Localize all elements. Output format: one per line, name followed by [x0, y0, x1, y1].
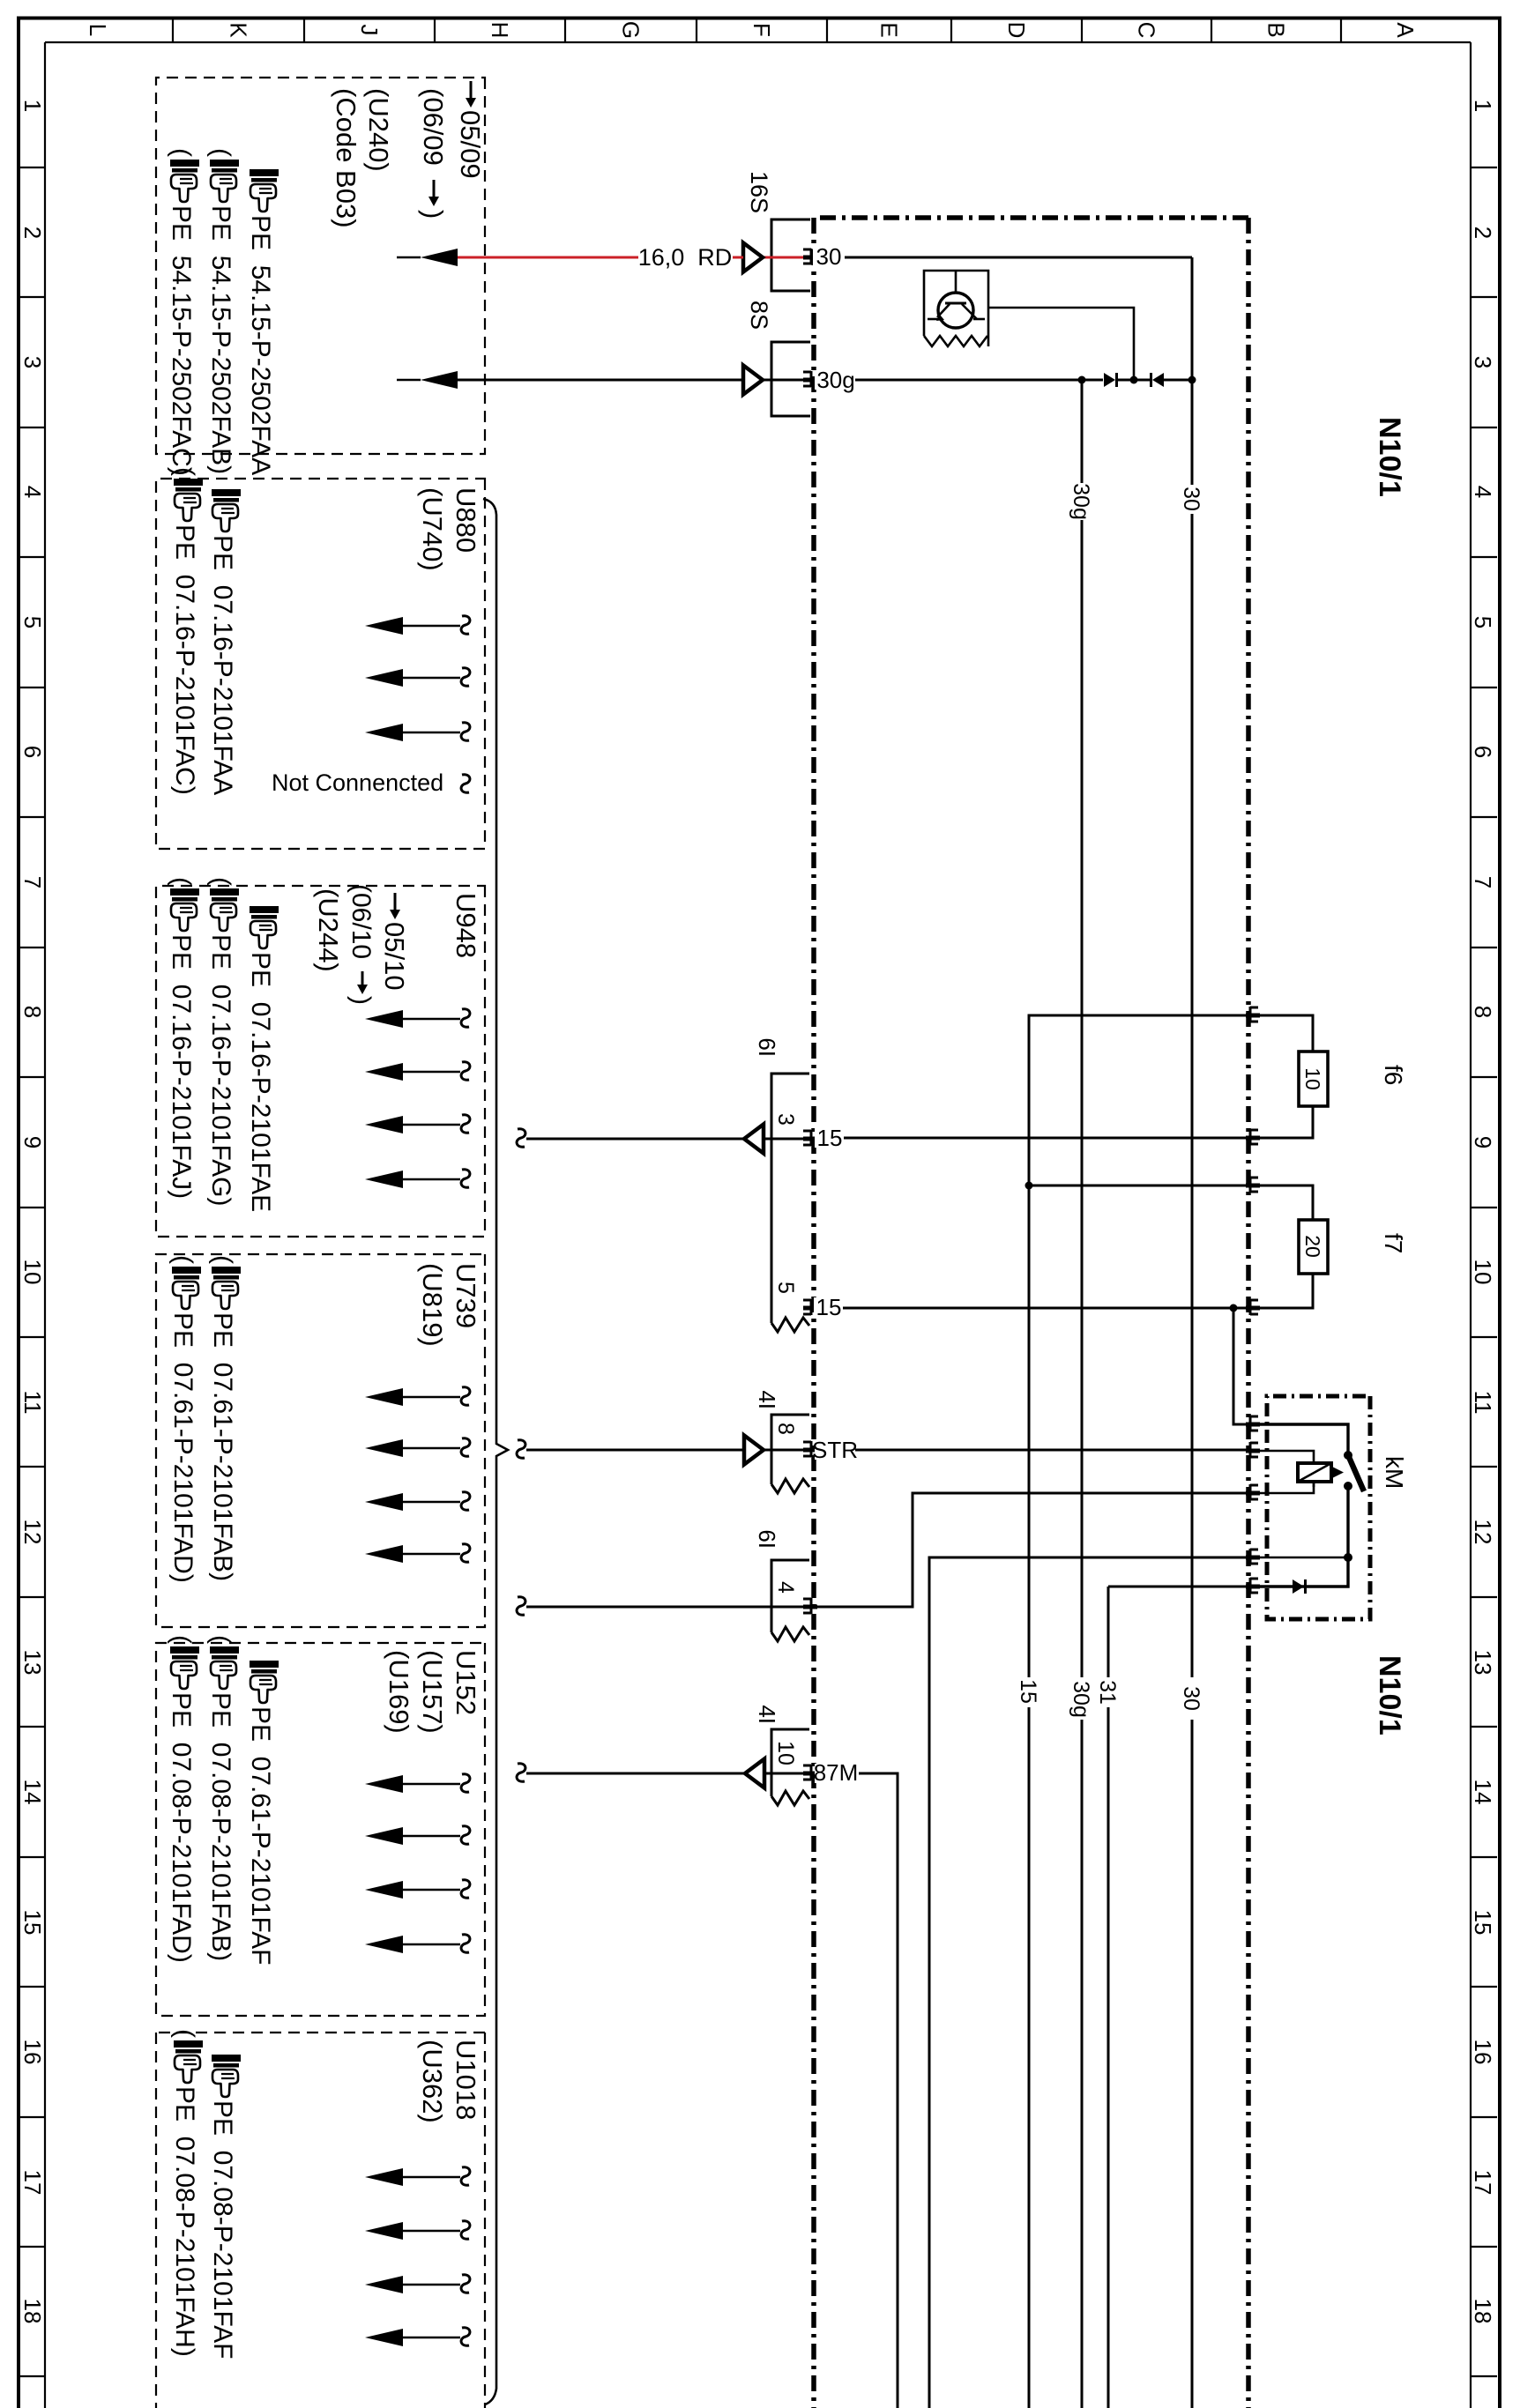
svg-text:(U169): (U169) [384, 1650, 414, 1734]
relay switch arm [1348, 1455, 1364, 1491]
svg-text:12: 12 [19, 1520, 46, 1545]
svg-text:5: 5 [19, 616, 46, 628]
relay switch feed wire [1248, 1424, 1348, 1452]
svg-text:(: ( [206, 877, 235, 886]
svg-text:8: 8 [773, 1423, 798, 1435]
squiggle 87M [517, 1764, 525, 1782]
svg-text:13: 13 [1470, 1650, 1496, 1676]
svg-text:U1018: U1018 [451, 2040, 481, 2120]
pin f7 in [1246, 1184, 1260, 1188]
svg-text:(U240): (U240) [363, 88, 394, 172]
box U152 stub 2 [461, 1826, 470, 1845]
relay output to pin 87M wire [1248, 1557, 1348, 1558]
svg-text:1: 1 [1470, 100, 1496, 112]
pin f6 in [1246, 1014, 1260, 1018]
box U948 ref FAE [250, 906, 279, 948]
fuse f7 20A [1248, 1185, 1313, 1220]
svg-text:9: 9 [19, 1136, 46, 1148]
svg-text:8: 8 [1470, 1006, 1496, 1018]
relay kM box [1267, 1396, 1370, 1619]
triangle STR [744, 1436, 764, 1465]
svg-text:3: 3 [19, 356, 46, 368]
svg-text:4: 4 [19, 486, 46, 498]
box U739 stub 3 [461, 1492, 470, 1511]
pin label 15a [815, 1128, 844, 1148]
border frame [1498, 17, 1501, 2408]
svg-text:7: 7 [1470, 876, 1496, 888]
svg-text:K: K [226, 22, 252, 38]
wire 15a below [764, 1138, 803, 1141]
connector 4I-a bracket [771, 1415, 809, 1484]
svg-text:N10/1: N10/1 [1373, 1655, 1406, 1735]
svg-text:PE 54.15-P-2502FAB): PE 54.15-P-2502FAB) [206, 205, 235, 474]
svg-text:15: 15 [1470, 1910, 1496, 1936]
diode V1 [1293, 1579, 1304, 1594]
svg-text:PE 07.16-P-2101FAA: PE 07.16-P-2101FAA [208, 535, 237, 795]
svg-text:4I: 4I [754, 1705, 780, 1724]
svg-text:J: J [356, 25, 383, 36]
row letter band [1340, 19, 1342, 42]
svg-text:18: 18 [19, 2299, 46, 2324]
bus 30g [1081, 380, 1084, 2408]
svg-text:13: 13 [19, 1650, 46, 1676]
svg-text:PE 07.08-P-2101FAH): PE 07.08-P-2101FAH) [170, 2086, 199, 2357]
connector 16S bracket [771, 219, 810, 291]
box U880 stub 1 [461, 616, 470, 635]
box U1018 stub 1 [461, 2167, 470, 2186]
connector 4I-b bracket [771, 1729, 809, 1796]
box U152 stub 1 [461, 1774, 470, 1793]
svg-text:H: H [487, 22, 513, 39]
svg-text:PE 07.61-P-2101FAB): PE 07.61-P-2101FAB) [208, 1312, 237, 1581]
svg-text:PE 07.08-P-2101FAD): PE 07.08-P-2101FAD) [167, 1692, 196, 1963]
box U152 stub 3 [461, 1880, 470, 1899]
svg-text:(: ( [167, 148, 196, 157]
svg-text:17: 17 [1470, 2170, 1496, 2196]
bus 15 [1029, 1015, 1248, 2408]
pin relay 30 in [1246, 1423, 1260, 1427]
pin 31 [803, 1605, 817, 1609]
pin relay diode [1246, 1585, 1260, 1589]
svg-text:30: 30 [816, 243, 842, 270]
box U1018 stub 4 [461, 2328, 470, 2346]
box U152 stub 4 [461, 1935, 470, 1953]
wire 31 coil return [814, 1493, 1248, 1607]
wire 87M pin link [814, 1773, 898, 2408]
svg-text:11: 11 [19, 1391, 46, 1415]
reference box U1018 [484, 2033, 486, 2408]
control unit N10/1 box [1246, 218, 1251, 2408]
svg-text:4I: 4I [754, 1390, 780, 1409]
pin 15a [803, 1137, 817, 1141]
svg-text:10: 10 [19, 1260, 46, 1285]
svg-text:(: ( [208, 1255, 237, 1264]
wire 30g chain [814, 379, 1082, 382]
relay coil kM [1298, 1463, 1331, 1482]
svg-text:PE 07.16-P-2101FAJ): PE 07.16-P-2101FAJ) [167, 934, 196, 1199]
svg-text:PE 54.15-P-2502FAA: PE 54.15-P-2502FAA [246, 215, 275, 475]
box U1018 stub 3 [461, 2275, 470, 2293]
bus 31 [1108, 1586, 1248, 1588]
box U948 stub 4 [461, 1170, 470, 1188]
pin relay 87 [1246, 1556, 1260, 1560]
svg-text:4: 4 [773, 1581, 798, 1594]
relay actuation arrow [1313, 1482, 1315, 1487]
svg-text:2: 2 [1470, 227, 1496, 239]
connector 8S bracket [771, 342, 810, 416]
svg-text:31: 31 [1095, 1680, 1120, 1705]
svg-text:15: 15 [816, 1294, 842, 1320]
svg-text:6: 6 [19, 746, 46, 758]
svg-text:(U819): (U819) [417, 1263, 448, 1347]
svg-text:F: F [749, 23, 775, 37]
svg-text:U739: U739 [451, 1263, 481, 1328]
pin 30 [803, 256, 817, 260]
box U1018 stub 2 [461, 2221, 470, 2240]
svg-text:10: 10 [773, 1741, 798, 1765]
reference box U948 [156, 886, 485, 1237]
pin relay 85 coil [1246, 1491, 1260, 1496]
relay coil return wire [1248, 1482, 1314, 1493]
triangle 87M [745, 1759, 764, 1788]
svg-text:(Code B03): (Code B03) [331, 88, 361, 228]
svg-text:f7: f7 [1380, 1233, 1407, 1253]
box U739 stub 1 [461, 1387, 470, 1406]
wire 30 inside [814, 256, 1192, 259]
svg-text:12: 12 [1470, 1520, 1496, 1545]
svg-text:9: 9 [1470, 1136, 1496, 1148]
box U948 stub 1 [461, 1009, 470, 1028]
svg-text:(U362): (U362) [417, 2040, 448, 2123]
svg-text:7: 7 [19, 876, 46, 888]
box U240 text 05/09 [470, 81, 473, 100]
svg-text:PE 54.15-P-2502FAC): PE 54.15-P-2502FAC) [167, 205, 196, 476]
svg-text:E: E [876, 22, 903, 37]
diode V3 down [1152, 373, 1164, 387]
svg-text:PE 07.16-P-2101FAG): PE 07.16-P-2101FAG) [206, 934, 235, 1207]
svg-text:3: 3 [773, 1113, 798, 1126]
pin relay 86 coil [1246, 1449, 1260, 1453]
svg-text:6: 6 [1470, 746, 1496, 758]
svg-text:14: 14 [19, 1780, 46, 1805]
harness separator line [483, 499, 508, 2404]
column number bands [1471, 167, 1497, 168]
wire relay feed branch [1233, 1308, 1248, 1424]
svg-text:B: B [1263, 22, 1290, 37]
svg-text:(U157): (U157) [417, 1650, 448, 1734]
svg-text:(06/10: (06/10 [346, 884, 376, 959]
svg-text:15: 15 [1016, 1679, 1040, 1704]
box U880 ref FAA [212, 489, 241, 531]
squiggle STR [517, 1440, 525, 1459]
svg-text:10: 10 [1470, 1260, 1496, 1285]
svg-text:15: 15 [19, 1910, 46, 1936]
pin f7 out [1246, 1306, 1260, 1311]
svg-text:(: ( [170, 2029, 199, 2038]
arrow 30 [421, 249, 458, 266]
squiggle 15a [517, 1129, 525, 1148]
battery sense wire [988, 308, 1134, 380]
wire 15 f6 out [814, 1137, 1248, 1140]
svg-text:A: A [1392, 22, 1419, 38]
svg-text:L: L [85, 24, 111, 36]
svg-text:(: ( [170, 467, 199, 476]
svg-text:8S: 8S [746, 301, 772, 330]
wire 87M relay out [929, 1557, 1248, 2408]
svg-text:(: ( [167, 877, 196, 886]
pin f6 out [1246, 1136, 1260, 1141]
svg-text:U948: U948 [451, 893, 481, 958]
pin 87M [803, 1772, 817, 1776]
svg-text:5: 5 [773, 1282, 798, 1294]
triangle 30g [743, 366, 763, 395]
connector 6I-b bracket [771, 1560, 809, 1632]
svg-text:30g: 30g [1069, 483, 1093, 520]
wire 30 red feed [764, 256, 803, 259]
pin 15b [803, 1306, 817, 1311]
svg-text:D: D [1003, 22, 1030, 39]
box U948 text 05/10 [394, 893, 397, 912]
svg-text:PE 07.08-P-2101FAB): PE 07.08-P-2101FAB) [206, 1692, 235, 1961]
triangle 15a [744, 1125, 764, 1154]
fuse f6 10A [1248, 1015, 1313, 1052]
battery symbol G1 [924, 271, 988, 346]
svg-text:(U740): (U740) [417, 487, 448, 571]
relay diode branch wire [1248, 1557, 1348, 1587]
svg-text:11: 11 [1470, 1391, 1496, 1415]
box U739 stub 2 [461, 1438, 470, 1457]
svg-text:PE 07.61-P-2101FAD): PE 07.61-P-2101FAD) [168, 1312, 197, 1583]
svg-text:N10/1: N10/1 [1373, 417, 1406, 497]
box U948 stub 2 [461, 1062, 470, 1081]
svg-text:18: 18 [1470, 2299, 1496, 2324]
box U880 stub 2 [461, 668, 470, 687]
svg-text:STR: STR [812, 1437, 858, 1463]
box U1018 ref FAF [212, 2055, 241, 2097]
svg-text:30: 30 [1179, 1686, 1203, 1711]
connector 6I-a bracket [771, 1074, 809, 1323]
pin STR [803, 1448, 817, 1453]
svg-text:17: 17 [19, 2170, 46, 2196]
svg-text:U152: U152 [451, 1650, 481, 1715]
reference box U880 [156, 479, 485, 849]
svg-text:14: 14 [1470, 1780, 1496, 1805]
svg-text:16: 16 [1470, 2040, 1496, 2065]
svg-text:16,0 RD: 16,0 RD [638, 244, 733, 271]
svg-text:): ) [346, 996, 376, 1005]
reference box U739 [156, 1254, 485, 1627]
svg-text:f6: f6 [1380, 1065, 1407, 1085]
svg-text:1: 1 [19, 100, 46, 112]
diode V2 up [1104, 373, 1115, 387]
pin label 30 [813, 247, 845, 266]
wire STR below [764, 1449, 803, 1452]
svg-text:C: C [1134, 22, 1160, 39]
svg-text:30: 30 [1179, 487, 1203, 511]
svg-text:(: ( [167, 1635, 196, 1644]
relay coil feed wire [1248, 1451, 1314, 1463]
svg-text:(U244): (U244) [313, 888, 344, 972]
svg-text:05/09: 05/09 [455, 110, 486, 179]
box U739 stub 4 [461, 1544, 470, 1563]
wire 31 below [526, 1606, 803, 1609]
svg-text:4: 4 [1470, 486, 1496, 498]
svg-text:16S: 16S [746, 171, 772, 213]
wire f7 feed [1029, 1185, 1248, 1187]
svg-text:): ) [418, 210, 449, 219]
svg-text:15: 15 [817, 1125, 843, 1151]
svg-text:U880: U880 [451, 487, 481, 553]
svg-text:20: 20 [1301, 1235, 1324, 1258]
squiggle 31 [517, 1597, 525, 1616]
svg-text:(: ( [206, 1635, 235, 1644]
svg-text:16: 16 [19, 2040, 46, 2065]
box U152 ref FAF [250, 1661, 279, 1703]
triangle 30 [743, 243, 763, 272]
bus 30 [1191, 257, 1194, 2408]
relay switch output wire [1346, 1486, 1349, 1557]
pin label 15b [814, 1297, 843, 1317]
svg-text:PE 07.08-P-2101FAF: PE 07.08-P-2101FAF [208, 2100, 237, 2360]
svg-text:6I: 6I [754, 1529, 780, 1549]
pin label 30g [815, 370, 855, 390]
svg-text:87M: 87M [814, 1759, 859, 1786]
svg-text:kM: kM [1381, 1456, 1408, 1489]
relay contact dots [1344, 1451, 1352, 1460]
svg-text:PE 07.61-P-2101FAF: PE 07.61-P-2101FAF [246, 1706, 275, 1966]
wire 30g feed [764, 379, 803, 382]
svg-text:5: 5 [1470, 616, 1496, 628]
wire 15 f7 out [814, 1307, 1248, 1310]
box U240 ref FAA [250, 169, 279, 212]
svg-text:PE 07.16-P-2101FAE: PE 07.16-P-2101FAE [246, 952, 275, 1212]
svg-text:30g: 30g [816, 367, 854, 393]
wire STR [814, 1449, 1248, 1452]
svg-text:10: 10 [1301, 1067, 1324, 1090]
svg-text:(: ( [206, 148, 235, 157]
svg-text:Not Connencted: Not Connencted [272, 769, 443, 796]
svg-text:2: 2 [19, 227, 46, 239]
svg-text:8: 8 [19, 1006, 46, 1018]
arrow 30g [421, 371, 458, 389]
pin 30g [803, 378, 817, 383]
reference box U240 [156, 78, 485, 454]
svg-text:05/10: 05/10 [379, 922, 410, 991]
svg-text:(: ( [168, 1255, 197, 1264]
box U880 stub 3 [461, 723, 470, 741]
box U948 stub 3 [461, 1115, 470, 1133]
pin label 87M [815, 1764, 859, 1783]
pin label STR [815, 1440, 855, 1460]
svg-text:PE 07.16-P-2101FAC): PE 07.16-P-2101FAC) [170, 524, 199, 795]
wire 87M below [764, 1773, 803, 1775]
svg-text:30g: 30g [1069, 1681, 1093, 1718]
box U880 not connected stub [461, 775, 470, 793]
svg-text:G: G [618, 21, 645, 39]
svg-text:(06/09: (06/09 [418, 88, 449, 166]
svg-text:3: 3 [1470, 356, 1496, 368]
svg-text:6I: 6I [754, 1037, 780, 1057]
reference box U152 [156, 1643, 485, 2016]
